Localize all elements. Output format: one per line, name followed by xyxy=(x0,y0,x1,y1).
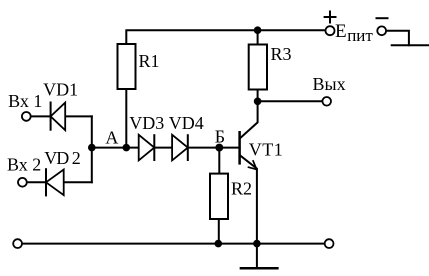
svg-text:VD1: VD1 xyxy=(43,79,78,99)
svg-text:R1: R1 xyxy=(138,51,159,71)
svg-text:А: А xyxy=(105,127,118,147)
svg-text:Б: Б xyxy=(215,126,225,146)
svg-text:Вх 2: Вх 2 xyxy=(7,155,41,175)
svg-text:Вых: Вых xyxy=(313,74,346,94)
svg-text:Е: Е xyxy=(335,21,347,42)
svg-text:VD4: VD4 xyxy=(169,113,204,133)
svg-text:R2: R2 xyxy=(231,178,252,198)
svg-text:Вх 1: Вх 1 xyxy=(8,91,42,111)
svg-text:пит: пит xyxy=(347,26,373,45)
svg-text:VD 2: VD 2 xyxy=(44,148,80,168)
svg-text:VT1: VT1 xyxy=(249,139,284,159)
svg-text:R3: R3 xyxy=(270,44,291,64)
svg-text:VD3: VD3 xyxy=(129,113,164,133)
